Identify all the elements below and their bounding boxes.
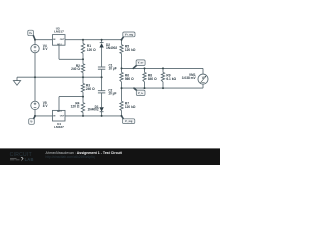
svg-text:LM337: LM337 (54, 125, 64, 129)
svg-text:240 Ω: 240 Ω (86, 87, 95, 91)
svg-text:120 Ω: 120 Ω (87, 48, 96, 52)
svg-text:LAB: LAB (25, 157, 34, 162)
svg-text:V-_reg: V-_reg (125, 120, 133, 123)
svg-text:V-: V- (30, 121, 32, 124)
svg-text:10 µF: 10 µF (109, 67, 117, 71)
svg-text:ADJ: ADJ (57, 110, 62, 113)
svg-text:10 µF: 10 µF (108, 92, 116, 96)
svg-text:http://circuitlab.com/c6k2695z: http://circuitlab.com/c6k2695z6p5q (46, 155, 95, 159)
svg-text:840 Ω: 840 Ω (148, 77, 157, 81)
svg-text:120 kΩ: 120 kΩ (125, 48, 136, 52)
svg-text:1N4002: 1N4002 (106, 46, 117, 50)
svg-text:V+_reg: V+_reg (125, 33, 134, 36)
svg-text:ADJ: ADJ (57, 43, 62, 46)
svg-text:OUT: OUT (60, 39, 65, 41)
svg-text:560 Ω: 560 Ω (125, 77, 134, 81)
svg-text:6.1 kΩ: 6.1 kΩ (166, 77, 176, 81)
svg-text:1N4002: 1N4002 (88, 108, 99, 112)
svg-text:3.038 mV: 3.038 mV (182, 76, 197, 80)
svg-text:120 kΩ: 120 kΩ (125, 105, 136, 109)
svg-text:OUT: OUT (60, 116, 65, 118)
svg-text:V_o-: V_o- (138, 92, 143, 95)
svg-text:LM317: LM317 (54, 29, 64, 33)
svg-text:V_o+: V_o+ (138, 62, 144, 65)
svg-text:240 Ω: 240 Ω (71, 67, 80, 71)
svg-text:120 Ω: 120 Ω (71, 105, 80, 109)
